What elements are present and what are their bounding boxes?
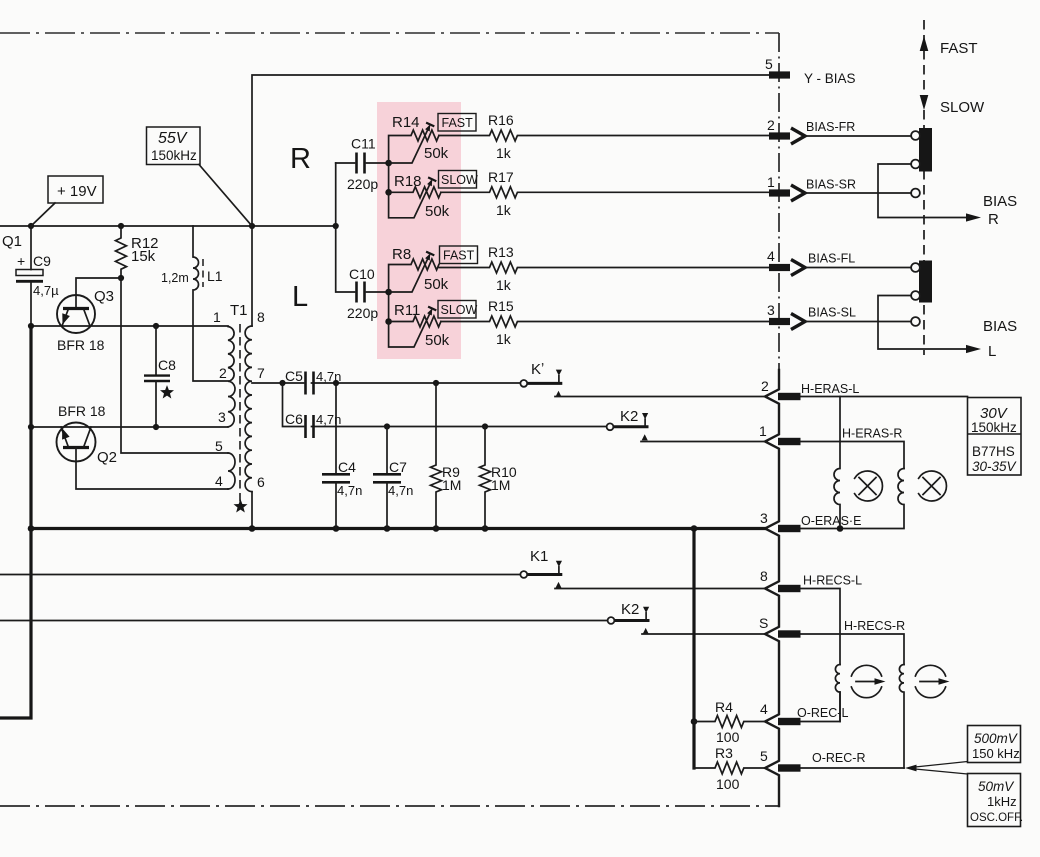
label SLOW box R18 [439,171,479,189]
SLOW arrow [920,95,985,116]
svg-text:O-ERAS·E: O-ERAS·E [801,514,861,528]
open contact BIAS-SL [911,317,920,326]
svg-text:R: R [988,211,999,228]
svg-text:Kʼ: Kʼ [531,361,544,378]
switch K' [520,361,562,397]
connector pin 2 BIAS-FR [767,117,855,144]
svg-text:SLOW: SLOW [441,173,478,187]
svg-text:100: 100 [716,729,740,745]
svg-text:1k: 1k [496,331,512,347]
capacitor C5 [252,368,521,395]
svg-text:R4: R4 [715,699,733,715]
svg-text:C5: C5 [285,368,303,384]
svg-text:C11: C11 [351,136,376,152]
svg-text:500mV: 500mV [974,731,1019,746]
svg-text:R17: R17 [488,169,514,185]
svg-text:R: R [290,143,311,175]
wire pin3 to open contact [805,321,911,323]
svg-text:BFR 18: BFR 18 [58,403,106,419]
svg-text:55V: 55V [158,130,188,147]
ground bus (thick) [28,525,765,532]
slider bar R channel [911,128,932,172]
svg-text:FAST: FAST [442,116,474,130]
connector pin 5 Y-BIAS [765,56,856,86]
resistor R3 100 [694,745,765,792]
svg-text:1,2m: 1,2m [161,271,189,285]
wire K1 to pin 8 H-RECS-L [555,588,765,590]
svg-text:C4: C4 [338,459,356,475]
svg-text:C7: C7 [389,459,407,475]
capacitor C7 [373,427,413,529]
wire pin4 to slider [805,267,911,269]
svg-text:R18: R18 [394,173,422,190]
svg-text:1: 1 [759,423,767,439]
capacitor C6 [283,383,607,438]
svg-text:4: 4 [760,701,768,717]
svg-text:2: 2 [219,365,227,381]
svg-text:H-RECS-L: H-RECS-L [803,574,862,588]
svg-text:C6: C6 [285,411,303,427]
svg-text:L1: L1 [207,268,223,284]
record head symbol L [851,665,885,697]
capacitor C4 [322,383,362,529]
wire C11 node to R18 node [385,160,392,196]
switch K2 upper [607,408,649,440]
connector pin 3 BIAS-SL [767,302,856,330]
svg-text:C9: C9 [33,253,51,269]
connector solid line with pin notches [765,370,779,806]
resistor R13 1k [439,244,769,293]
label 50mV 1kHz OSC.OFF box [968,774,1024,827]
svg-text:BIAS: BIAS [983,193,1017,210]
svg-text:30-35V: 30-35V [972,459,1018,474]
svg-text:+ 19V: + 19V [57,183,97,200]
erase head symbol L [855,471,883,501]
capacitor C9 [16,226,59,326]
wire C10 node to R11 node [385,289,392,325]
svg-text:3: 3 [760,510,768,526]
svg-text:2: 2 [767,117,775,133]
svg-text:R8: R8 [392,246,411,263]
svg-text:4,7n: 4,7n [337,483,362,498]
wire collector line y=326 to T1 pin 1 [28,323,228,329]
potentiometer R8 50k FAST [389,246,449,293]
svg-text:50k: 50k [425,203,450,220]
svg-text:5: 5 [215,438,223,454]
record head symbol R [915,665,949,697]
wire K2 to pin S H-RECS-R [642,633,765,635]
svg-text:4: 4 [767,248,775,264]
highlight band [377,102,461,359]
wire O-REC-L [801,692,841,722]
transformer T1 [213,302,265,503]
svg-text:Q1: Q1 [2,233,22,250]
label FAST box R14 [438,114,476,132]
svg-text:100: 100 [716,776,740,792]
connector pin 3 O-ERAS-E [760,510,861,532]
label 500mV 150kHz box [968,726,1021,763]
svg-text:50k: 50k [424,145,449,162]
top border dash-dot [0,32,779,34]
svg-text:8: 8 [257,309,265,325]
erase head coil L [834,397,840,529]
connector pin 1 H-ERAS-R [759,423,902,445]
svg-text:150kHz: 150kHz [971,420,1017,435]
label 30V 150kHz B77HS box [968,398,1022,476]
wire T1 pin 6 to ground bus [251,492,253,529]
svg-text:50k: 50k [425,332,450,349]
potentiometer R14 50k FAST [389,114,449,163]
connector pin 4 BIAS-FL [767,248,855,276]
svg-text:BIAS-SR: BIAS-SR [806,178,856,192]
resistor R17 1k [441,169,769,218]
svg-text:FAST: FAST [940,40,978,57]
svg-text:Q2: Q2 [97,449,117,466]
svg-text:150 kHz: 150 kHz [972,746,1020,761]
svg-text:1k: 1k [496,202,512,218]
wire H-RECS-R [801,634,905,665]
svg-text:1M: 1M [442,477,461,493]
wire O-REC-R [801,767,905,769]
connector pin S H-RECS-R [759,615,905,638]
erase head symbol R [919,471,947,501]
svg-text:150kHz: 150kHz [151,148,197,163]
capacitor C8 [144,326,176,430]
FAST SLOW dashed adjuster line [923,20,925,355]
svg-text:1k: 1k [496,145,512,161]
svg-text:5: 5 [765,56,773,72]
switch K2 lower [608,601,650,634]
svg-text:220p: 220p [347,305,378,321]
svg-text:R15: R15 [488,298,514,314]
connector pin 5 O-REC-R [760,748,865,772]
svg-text:BIAS-FL: BIAS-FL [808,252,855,266]
svg-text:4: 4 [215,473,223,489]
svg-text:15k: 15k [131,248,156,265]
connector pin 1 BIAS-SR [767,174,856,201]
callout line from 500mV box [915,762,968,768]
wire O-ERAS-E junction [801,525,844,532]
svg-text:BIAS-FR: BIAS-FR [806,120,855,134]
resistor R15 1k [441,298,769,347]
connector dash-dot line upper [778,33,780,370]
capacitor C10 220p [336,163,389,321]
svg-text:1kHz: 1kHz [987,794,1017,809]
svg-text:BIAS: BIAS [983,318,1017,335]
svg-text:Q3: Q3 [94,288,114,305]
svg-text:SLOW: SLOW [940,99,985,116]
svg-text:Y - BIAS: Y - BIAS [804,71,856,86]
wire Q3 base from R12 [76,278,121,307]
svg-text:H-ERAS-R: H-ERAS-R [842,427,902,441]
svg-text:L: L [292,281,308,313]
svg-text:H-ERAS-L: H-ERAS-L [801,382,859,396]
label SLOW box R11 [438,301,478,319]
svg-text:1: 1 [767,174,775,190]
svg-text:220p: 220p [347,176,378,192]
wire BIAS R output [878,164,1017,228]
resistor R16 1k [439,112,769,161]
erase head coil R [840,469,904,529]
potentiometer R11 50k SLOW [389,302,450,349]
svg-text:BIAS-SL: BIAS-SL [808,306,856,320]
resistor R9 1M [431,383,462,529]
svg-text:S: S [759,615,768,631]
svg-text:7: 7 [257,365,265,381]
star mark at T1 pin 6 [234,499,248,512]
transistor Q2 BFR18 [57,403,118,466]
wire thick branch to R4 R3 [691,529,698,769]
svg-text:R11: R11 [394,302,420,319]
wire R12 node to T1 pin 5 [121,278,228,453]
wire pin2 to slider [805,135,911,137]
svg-text:4,7n: 4,7n [316,412,341,427]
svg-text:K2: K2 [620,408,638,425]
svg-text:R13: R13 [488,244,514,260]
label +19V callout box [31,176,103,226]
svg-text:4,7n: 4,7n [388,483,413,498]
inductor L1 1,2m [161,226,228,381]
svg-text:BFR 18: BFR 18 [57,337,105,353]
connector pin 4 O-REC-L [760,701,848,725]
transistor Q3 BFR18 [57,288,114,353]
record head coil L [835,665,840,722]
wire H-RECS-L [801,589,841,665]
connector pin 8 H-RECS-L [760,568,862,592]
connector pin 2 H-ERAS-L [761,378,859,400]
callout arrow at O-REC-R [905,765,917,772]
svg-text:6: 6 [257,474,265,490]
svg-text:1: 1 [213,309,221,325]
svg-text:3: 3 [767,302,775,318]
svg-text:C10: C10 [349,266,375,282]
svg-text:R16: R16 [488,112,514,128]
wire K2 to pin 1 H-ERAS-R [641,441,765,443]
svg-text:O-REC-R: O-REC-R [812,751,865,765]
svg-text:K1: K1 [530,548,548,565]
label 55V 150kHz callout box [147,127,253,226]
resistor R12 [116,226,159,281]
svg-text:+: + [17,253,25,269]
svg-text:T1: T1 [230,302,248,319]
svg-text:R14: R14 [392,114,420,131]
label FAST box R8 [440,246,478,264]
svg-text:L: L [988,343,996,360]
svg-text:C8: C8 [158,357,176,373]
wire K' to pin 2 H-ERAS-L [555,396,765,398]
svg-text:B77HS: B77HS [972,444,1015,459]
potentiometer R18 50k SLOW [389,173,450,220]
node +19V supply rail [0,223,339,229]
wire K1 input line [0,574,520,576]
svg-text:4,7µ: 4,7µ [33,283,59,298]
star mark at C8 [160,385,174,398]
svg-text:FAST: FAST [443,249,475,263]
wire Q2 line y=427 to T1 pin 3 [28,424,228,430]
wire Q2 base to T1 pin 4 [76,448,228,490]
record head coil R [899,665,904,769]
resistor R10 1M [480,427,517,529]
slider bar L channel [911,261,932,303]
wire K2 lower input line [0,620,608,622]
svg-text:R3: R3 [715,745,733,761]
svg-text:H-RECS-R: H-RECS-R [844,619,905,633]
svg-text:SLOW: SLOW [441,303,478,317]
wire left supply drop (thick) [0,326,31,718]
wire H-ERAS-L to 30V box [801,396,968,398]
svg-text:2: 2 [761,378,769,394]
wire pin1 to open contact [805,192,911,194]
svg-text:50mV: 50mV [978,779,1015,794]
svg-text:4,7n: 4,7n [316,369,341,384]
wire BIAS L output [878,296,1017,361]
bottom border dash-dot [0,805,779,807]
svg-text:1M: 1M [491,477,510,493]
svg-text:3: 3 [218,409,226,425]
open contact BIAS-SR [911,189,920,198]
svg-text:OSC.OFF.: OSC.OFF. [970,812,1023,824]
capacitor C11 220p [336,136,389,193]
svg-text:1k: 1k [496,277,512,293]
switch K1 [520,548,562,588]
svg-text:8: 8 [760,568,768,584]
FAST arrow [920,36,978,57]
wire H-ERAS-R [801,442,905,469]
wire T1 pin 8 riser and Y-BIAS line [252,75,769,326]
svg-text:50k: 50k [424,276,449,293]
svg-text:5: 5 [760,748,768,764]
callout line from 50mV box [915,769,968,774]
svg-text:K2: K2 [621,601,639,618]
resistor R4 100 [694,699,765,745]
